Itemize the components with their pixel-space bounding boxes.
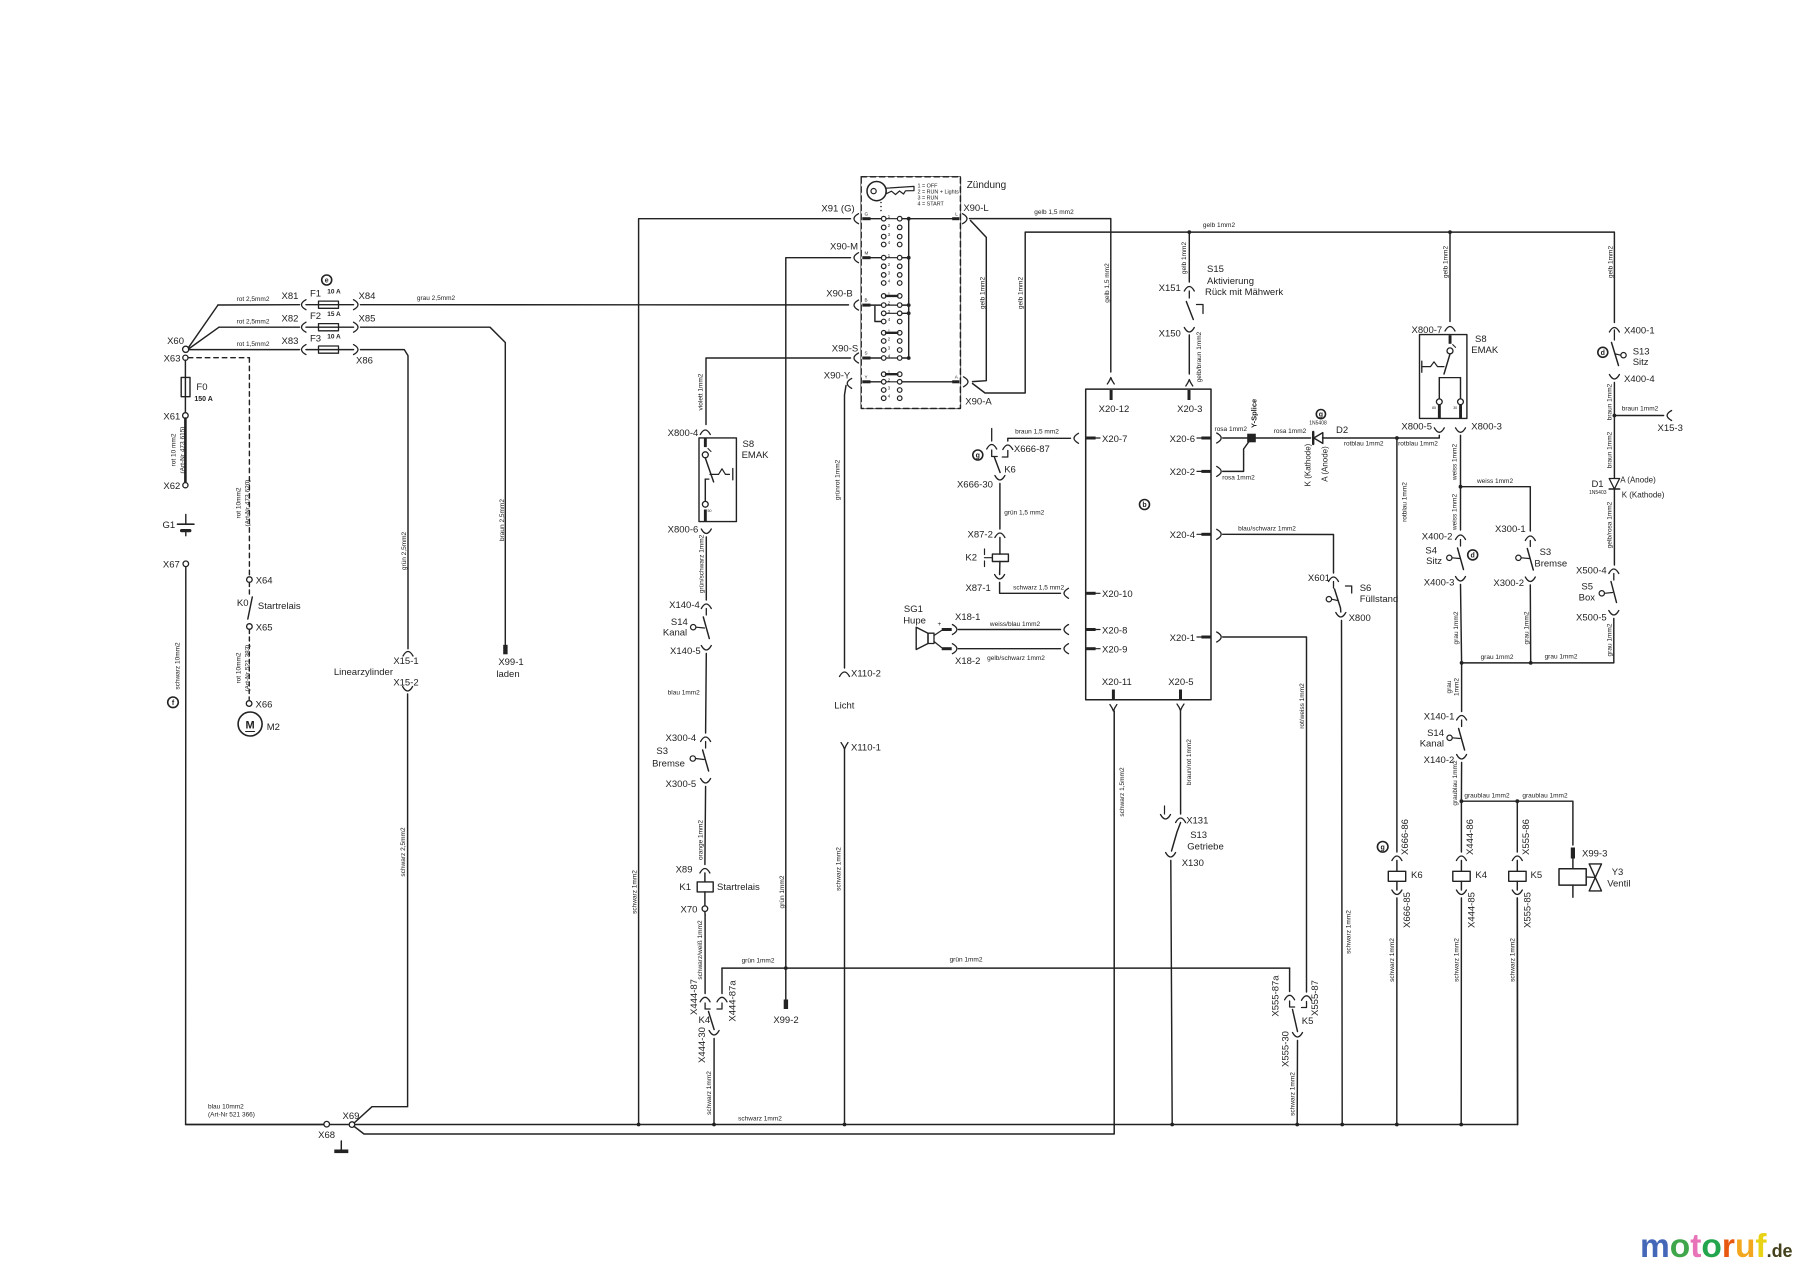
svg-text:X99-1: X99-1 [498,657,523,668]
ground [334,1141,348,1153]
svg-text:braun 1mm2: braun 1mm2 [1607,431,1614,468]
svg-text:M: M [246,720,255,732]
svg-text:rot 10mm2: rot 10mm2 [236,487,243,518]
marker circle e [322,275,332,285]
wire schwarz K4 coil to bus [1460,898,1462,1125]
wire gelb 1mm2 X90-A main rail [973,232,1615,393]
relay coil K2 [965,549,1008,567]
svg-text:Sitz: Sitz [1426,556,1442,567]
svg-text:X81: X81 [282,291,299,302]
connector X666-86 [1392,819,1411,860]
svg-text:X140-4: X140-4 [669,600,700,611]
label S3 Bremse left [652,746,685,770]
fork X20-3 wire end [1186,380,1193,387]
ignition wire B3 tick [886,312,909,314]
svg-text:Sitz: Sitz [1633,357,1649,368]
connector X110-1 [841,743,881,754]
terminal X18-2 [942,647,981,667]
svg-text:X20-5: X20-5 [1168,677,1193,688]
wire schwarz S6 to bus [1341,621,1344,1125]
svg-text:grün 1mm2: grün 1mm2 [779,875,786,908]
label violett 1mm2 [698,373,705,410]
hooks K6 contact [987,445,1013,450]
fuse F2 15A with connectors X82/X85 [282,311,376,332]
label gelb 1mm2 X800-7 [1443,246,1450,279]
label weiss blau 1mm2 [989,621,1041,628]
connector X150 [1159,328,1195,340]
label D2 1N5408 [1309,410,1348,437]
label braun rot 1mm2 [1186,739,1193,785]
connector X800-4 [668,428,711,439]
relay box S8 EMAK right [1420,335,1467,419]
wire weiss 1mm2 to X300-1 [1461,487,1531,531]
svg-text:D1: D1 [1591,479,1603,490]
svg-text:G: G [865,211,869,216]
connector X555-87 [1302,980,1322,1016]
svg-text:schwarz 1mm2: schwarz 1mm2 [706,1071,713,1115]
svg-text:schwarz/weiß 1mm2: schwarz/weiß 1mm2 [697,920,704,980]
svg-text:Y3: Y3 [1612,867,1624,878]
svg-text:K2: K2 [965,553,977,564]
label X86 [356,356,373,367]
svg-text:X131: X131 [1186,816,1208,827]
svg-text:X65: X65 [256,622,273,633]
svg-text:Zündung: Zündung [967,180,1006,191]
svg-text:braun 2,5mm2: braun 2,5mm2 [499,499,506,541]
wire grau 1mm2 X400-3 down [1461,585,1462,663]
junction gruen X99-2 [784,966,788,970]
label schwarz 1mm2 K6 [1389,938,1396,982]
label gelb 1,5 mm2 [1034,209,1074,216]
svg-text:gelb/rosa 1mm2: gelb/rosa 1mm2 [1607,501,1614,548]
svg-text:Rück mit Mähwerk: Rück mit Mähwerk [1205,287,1283,298]
label gruen 2,5mm2 [401,531,408,570]
svg-text:gelb 1,5 mm2: gelb 1,5 mm2 [1034,209,1074,216]
label rot weiss 1mm2 [1299,683,1306,729]
stub X131 mate [1161,806,1171,819]
terminal X99-1 laden [496,645,523,680]
connector X131 [1176,816,1209,827]
svg-text:X20-9: X20-9 [1102,645,1127,656]
wire grau 1mm2 X300-2 down [1529,585,1531,663]
wire rot to F2 row [189,327,300,349]
label X90-L [963,203,988,214]
svg-text:X300-2: X300-2 [1493,578,1524,589]
label rosa 1mm2 b [1222,475,1255,482]
wire blau/schwarz 1mm2 X20-4 to X601 [1217,529,1334,573]
label S5 Box [1579,582,1596,604]
svg-text:X800-3: X800-3 [1471,422,1502,433]
label schwarz 1mm2 Licht [836,847,843,891]
svg-text:blau 10mm2: blau 10mm2 [208,1104,244,1111]
connector X400-3 [1424,577,1466,589]
label gruenrot 1mm2 [834,459,841,500]
ignition key icon [867,182,914,201]
svg-text:K4: K4 [1475,870,1487,881]
wire X87-2 to K2 [999,538,1001,555]
wire weiss 1mm2 X800-3 down [1460,435,1462,530]
label blau schwarz 1mm2 [1238,526,1296,533]
svg-text:B: B [865,298,868,303]
label weiss 1mm2 v2 [1452,494,1459,532]
diode D2 [1303,432,1329,486]
svg-text:X555-86: X555-86 [1521,819,1532,855]
svg-text:X15-3: X15-3 [1658,423,1683,434]
svg-text:grün/schwarz 1mm2: grün/schwarz 1mm2 [698,534,705,593]
wire orange 1mm2 X300-5 down [704,787,707,865]
svg-text:grün 2,5mm2: grün 2,5mm2 [401,531,408,570]
svg-text:g: g [1319,412,1323,419]
svg-text:rot/weiss 1mm2: rot/weiss 1mm2 [1299,683,1306,729]
connector X444-87 [689,979,710,1015]
svg-text:graublau 1mm2: graublau 1mm2 [1522,793,1568,800]
svg-text:gelb 1mm2: gelb 1mm2 [1181,242,1188,275]
svg-text:X84: X84 [359,291,376,302]
svg-text:K5: K5 [1302,1016,1314,1027]
svg-text:Box: Box [1579,593,1596,604]
node X70 [680,905,707,916]
svg-text:S14: S14 [1427,728,1444,739]
svg-text:X61: X61 [163,412,180,423]
svg-text:X62: X62 [163,481,180,492]
node X67 [163,560,189,571]
label rot 1,5mm2 F3 [237,341,270,348]
marker circle g middle [973,450,983,460]
pin X20-12 [1099,390,1130,415]
node X66 [246,699,272,710]
label gelb schwarz 1mm2 [987,655,1045,662]
label K5 coil [1531,870,1543,881]
svg-text:K (Kathode): K (Kathode) [1622,491,1665,500]
svg-text:graublau 1mm2: graublau 1mm2 [1464,793,1510,800]
svg-text:X99-3: X99-3 [1582,849,1607,860]
marker circle f [168,697,179,708]
svg-text:X20-10: X20-10 [1102,589,1133,600]
junction S6 bus [1340,1123,1344,1127]
terminal X99-3 [1571,848,1608,860]
switch S13 Sitz lever [1612,330,1627,366]
connector X110-2 [840,669,881,680]
svg-text:X666-85: X666-85 [1402,892,1413,928]
svg-text:X90-B: X90-B [826,289,852,300]
node X69 [343,1111,360,1127]
ignition bridge S1 [886,332,897,334]
svg-text:S8: S8 [743,439,755,450]
svg-text:braun/rot 1mm2: braun/rot 1mm2 [1186,739,1193,785]
connector X140-4 [669,600,711,611]
svg-text:X800-4: X800-4 [668,428,699,439]
svg-text:4 = START: 4 = START [918,202,945,208]
svg-text:graublau 1mm2: graublau 1mm2 [1452,760,1459,806]
connector X800-3 [1456,422,1502,433]
svg-text:Startrelais: Startrelais [717,882,760,893]
wire K2 to X87-1 [999,562,1001,575]
label gruen schwarz 1mm2 [698,534,705,593]
wire gelb 1,5mm2 X90-L to X20-12 [970,219,1111,372]
label gelb 1mm2 S15 [1181,242,1188,275]
svg-text:X70: X70 [680,905,697,916]
connector X87-1 [965,575,1004,595]
label gelb 1mm2 link [979,277,986,310]
svg-text:Ventil: Ventil [1607,879,1630,890]
bus riser to K5 coil [1516,898,1518,1125]
svg-text:laden: laden [496,669,519,680]
svg-text:d: d [1601,350,1605,357]
ignition wire G1 to L [886,218,952,220]
wire rotblau 1mm2 X800-5 [1398,435,1439,438]
svg-text:1N5403: 1N5403 [1589,490,1607,496]
svg-text:rotblau 1mm2: rotblau 1mm2 [1398,441,1438,448]
ignition position legend [918,184,960,208]
connector X555-87a [1271,975,1295,1017]
wire weiss/blau 1mm2 X18-1 to X20-8 [952,625,1060,635]
ignition bridge B1 [886,295,897,297]
svg-text:Linearzylinder: Linearzylinder [334,667,393,678]
svg-text:X800-5: X800-5 [1401,422,1432,433]
pin X20-1 [1170,633,1211,644]
ignition wire S4 tick [886,357,909,359]
ignition switch box Zuendung [861,177,960,409]
ignition terminal B [854,298,881,310]
ignition contact circles [881,216,902,400]
node X65 [247,622,273,633]
svg-text:schwarz 1mm2: schwarz 1mm2 [632,870,639,914]
svg-text:X66: X66 [256,699,273,710]
diode D1 [1589,476,1665,566]
svg-text:X20-1: X20-1 [1170,633,1195,644]
wire braun 1mm2 X400-4 down [1613,383,1615,480]
connector X666-87 [1014,444,1050,455]
svg-text:blau 1mm2: blau 1mm2 [668,690,701,697]
junction G-rail bus [637,1123,641,1127]
label Linearzylinder [334,667,393,678]
wire gruen 1mm2 rail [722,967,1290,969]
marker circle b [1140,500,1150,510]
junction gelb X800-7 branch [1448,230,1452,234]
svg-text:X90-Y: X90-Y [824,371,851,382]
svg-text:X89: X89 [676,865,693,876]
label gelb 1mm2 riser [1018,277,1025,310]
svg-text:S5: S5 [1581,582,1593,593]
relay coil K6 [1388,861,1405,891]
svg-text:g: g [1381,844,1385,851]
svg-text:S14: S14 [671,617,688,628]
svg-text:F3: F3 [310,334,321,345]
wire schwarz 1,5mm2 X87-1 to X20-10 [1000,583,1061,594]
pin X20-11 [1102,677,1132,700]
svg-text:Getriebe: Getriebe [1187,842,1223,853]
svg-text:X68: X68 [318,1130,335,1141]
label gruen 1,5 mm2 [1004,510,1044,517]
svg-text:rot 1,5mm2: rot 1,5mm2 [237,341,270,348]
svg-text:S8: S8 [1475,334,1487,345]
svg-text:grau 2,5mm2: grau 2,5mm2 [417,295,456,302]
svg-text:schwarz 1mm2: schwarz 1mm2 [836,847,843,891]
wire schwarz X91-G down to bus [639,219,851,1125]
junctions graublau rail [1460,799,1520,803]
svg-text:X300-1: X300-1 [1495,524,1526,535]
svg-text:K6: K6 [1411,870,1423,881]
wire schwarz K4 contact to bus [713,1039,715,1125]
wire rosa 1mm2 splice to D2 [1256,437,1311,439]
connector X800 [1336,613,1371,625]
svg-text:X20-12: X20-12 [1099,404,1130,415]
svg-text:X666-87: X666-87 [1014,444,1050,455]
svg-text:X86: X86 [356,356,373,367]
label rotblau 1mm2 v [1402,482,1409,522]
wire gelb/schwarz 1mm2 X18-2 to X20-9 [952,644,1060,654]
label schwarz 1,5 mm2 [1013,585,1064,592]
svg-text:X64: X64 [256,575,273,586]
junction X130 bus [1170,1123,1174,1127]
svg-text:braun 1mm2: braun 1mm2 [1607,383,1614,420]
svg-text:(Art-Nr 473 615): (Art-Nr 473 615) [180,427,187,474]
wire braun/rot X20-5 to X131 [1177,704,1184,814]
label X90-S [832,344,858,355]
svg-text:X444-30: X444-30 [697,1027,708,1063]
label blau 10mm2 Art-Nr 521 366 [208,1104,255,1119]
svg-text:EMAK: EMAK [742,450,770,461]
connector X800-7 [1412,325,1455,336]
svg-text:X87-1: X87-1 [965,583,990,594]
svg-text:S: S [865,351,868,356]
label schwarz 2,5mm2 [400,827,407,877]
label grau 2,5mm2 [417,295,456,302]
wire schwarz K6 coil to bus [1396,898,1398,1125]
svg-text:X555-87: X555-87 [1310,980,1321,1016]
svg-text:X666-30: X666-30 [957,480,993,491]
junction grau [1460,661,1464,665]
ignition terminal S [854,351,881,363]
svg-text:X20-3: X20-3 [1177,404,1202,415]
svg-text:gelb 1mm2: gelb 1mm2 [979,277,986,310]
svg-text:A (Anode): A (Anode) [1620,476,1656,485]
svg-text:X63: X63 [164,354,181,365]
pin X20-7 [1086,434,1127,445]
svg-text:A (Anode): A (Anode) [1320,446,1329,482]
connector X300-5 [666,779,711,791]
svg-text:F2: F2 [310,311,321,322]
svg-text:S4: S4 [1425,546,1437,557]
junction K6 bus [1395,1123,1399,1127]
label S3 Bremse right [1534,547,1567,570]
svg-text:X400-2: X400-2 [1422,532,1453,543]
label schwarz 10mm2 [175,642,182,690]
svg-text:g: g [976,453,980,460]
marker circle g right [1377,842,1388,853]
svg-text:50: 50 [708,509,712,513]
svg-text:schwarz 1mm2: schwarz 1mm2 [738,1116,782,1123]
pin X20-8 [1086,625,1127,636]
connector X555-30 [1281,1031,1303,1067]
svg-text:schwarz 1mm2: schwarz 1mm2 [1290,1072,1297,1116]
hook X20-8 wire [1064,625,1069,635]
svg-text:schwarz 1mm2: schwarz 1mm2 [1389,938,1396,982]
label S14 Kanal left [663,617,688,639]
svg-text:X82: X82 [282,314,299,325]
label braun 1mm2 stub [1622,406,1659,413]
motor M2 [238,712,280,736]
svg-text:1mm2: 1mm2 [1454,678,1461,696]
svg-text:X555-30: X555-30 [1281,1031,1292,1067]
label Licht [834,701,854,712]
wire blau 1mm2 X140-5 down [705,654,708,734]
svg-text:grünrot 1mm2: grünrot 1mm2 [834,459,841,500]
hook X20-10 wire [1064,588,1069,598]
wire gruen to X444-87a [721,968,723,993]
svg-text:violett 1mm2: violett 1mm2 [698,373,705,410]
cable rot 10mm2 X61-X62 [184,419,187,482]
starter contactor K0 Startrelais [237,583,301,620]
connector X15-2 [393,678,418,692]
wire rosa 1mm2 X20-2 to Y-splice [1217,442,1249,477]
ignition wire B2 tick [886,304,909,306]
cable rot 10mm2 dashed X65 to X66 [248,630,250,700]
ignition wire M1 tick [886,257,909,259]
svg-text:X90-S: X90-S [832,344,858,355]
connector X300-2 [1493,577,1535,589]
label SG1 Hupe [903,604,926,627]
connector X130 [1166,853,1204,870]
relay box S8 EMAK left [699,438,736,522]
svg-text:gelb 1mm2: gelb 1mm2 [1607,246,1614,279]
svg-text:blau/schwarz 1mm2: blau/schwarz 1mm2 [1238,526,1296,533]
label gruen 1mm2 M-rail [779,875,786,908]
svg-text:X18-1: X18-1 [955,612,980,623]
wire schwarz K5 contact to bus [1296,1041,1298,1125]
svg-text:X67: X67 [163,560,180,571]
junction gelb S15 branch [1187,230,1191,234]
svg-text:weiss 1mm2: weiss 1mm2 [1452,494,1459,532]
node X60 [167,336,189,352]
motoruf.de logo [1640,1228,1793,1265]
wire graublau 1mm2 rail to Y3 [1461,801,1573,845]
label blau 1mm2 [668,690,701,697]
svg-text:gelb/schwarz 1mm2: gelb/schwarz 1mm2 [987,655,1045,662]
label schwarz 1mm2 G-rail [632,870,639,914]
pin X20-10 [1086,589,1132,600]
connector X151 [1159,283,1195,294]
fuse F1 10A with connectors X81/X84 [282,289,376,310]
svg-text:X601: X601 [1308,573,1330,584]
label K6 [1411,870,1423,881]
svg-text:rotblau 1mm2: rotblau 1mm2 [1344,441,1384,448]
svg-text:rot 10 mm2: rot 10 mm2 [171,433,178,466]
svg-text:X444-87: X444-87 [689,979,700,1015]
svg-text:grau 1mm2: grau 1mm2 [1453,611,1460,644]
bus wire schwarz 1,5mm2 X69 to X20-11 [354,711,1114,1134]
switch S13 Getriebe lever [1172,823,1181,852]
hook X20-7 wire [1074,433,1079,443]
wire graublau to K5 coil [1516,801,1518,852]
connector X500-4 [1576,566,1619,577]
pin X20-4 [1170,530,1211,541]
label schwarz 1mm2 K4c [706,1071,713,1115]
relay contact K6 [992,450,1016,476]
svg-text:X555-85: X555-85 [1523,892,1534,928]
label S13 Sitz [1633,347,1650,369]
ignition wire Y2 to A [886,381,952,383]
label rot 2,5mm2 F2 [237,319,270,326]
pin X20-2 [1170,467,1211,478]
connector X400-4 [1609,374,1654,385]
svg-text:gelb/braun 1mm2: gelb/braun 1mm2 [1196,331,1203,382]
svg-text:X444-86: X444-86 [1465,819,1476,855]
pin X20-5 [1168,677,1193,700]
fork X20-12 wire end [1107,378,1114,385]
svg-text:schwarz 1mm2: schwarz 1mm2 [1510,938,1517,982]
wire grau 1mm2 to X140-1 [1461,663,1463,712]
